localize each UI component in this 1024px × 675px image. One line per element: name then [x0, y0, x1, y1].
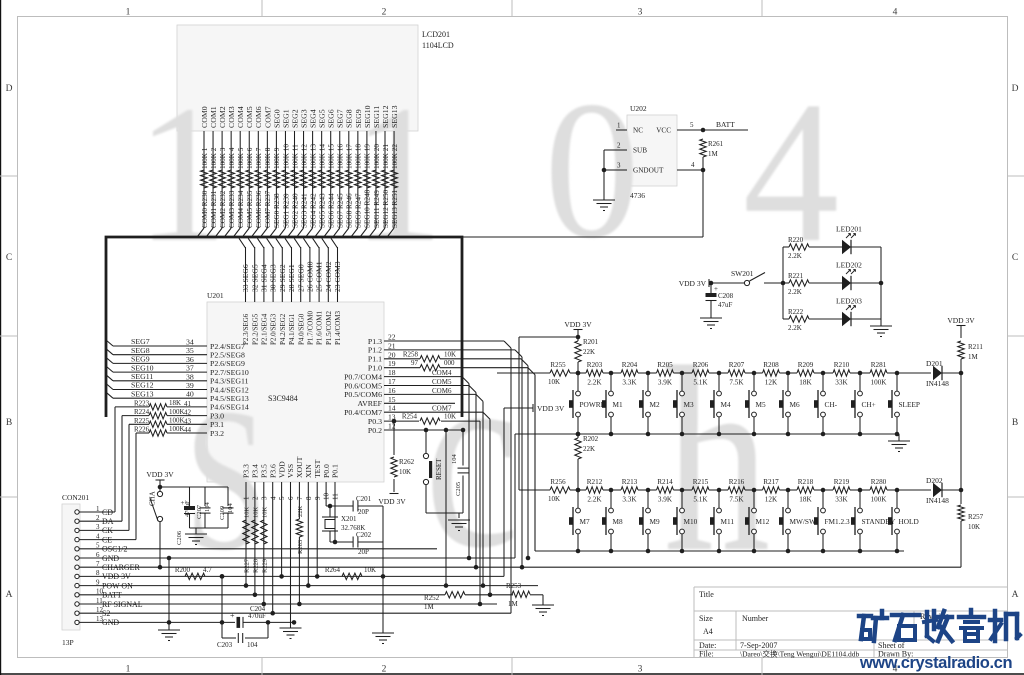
svg-text:U202: U202	[630, 104, 647, 113]
svg-text:TEST: TEST	[313, 459, 322, 478]
svg-text:M12: M12	[756, 517, 770, 526]
svg-text:R217: R217	[763, 478, 779, 486]
svg-text:C207: C207	[196, 504, 203, 519]
svg-text:P2.7/SEG10: P2.7/SEG10	[210, 368, 249, 377]
svg-text:COM4: COM4	[236, 106, 245, 128]
svg-text:SEG10 R248: SEG10 R248	[364, 189, 372, 228]
svg-text:3.3K: 3.3K	[622, 496, 637, 504]
svg-text:18K: 18K	[169, 399, 181, 407]
svg-text:30 SEG3: 30 SEG3	[269, 264, 278, 292]
svg-text:VSS: VSS	[286, 464, 295, 478]
svg-text:P3.0: P3.0	[210, 411, 224, 420]
svg-text:4.7: 4.7	[203, 566, 212, 574]
svg-text:22K: 22K	[297, 506, 304, 518]
svg-text:4736: 4736	[630, 191, 645, 200]
svg-text:SEG9 R247: SEG9 R247	[355, 193, 363, 228]
svg-text:R202: R202	[583, 435, 599, 443]
svg-text:LED203: LED203	[836, 297, 862, 306]
svg-text:R256: R256	[550, 478, 566, 486]
svg-text:C205: C205	[455, 482, 462, 496]
svg-text:SEG9: SEG9	[131, 355, 150, 364]
svg-text:3: 3	[617, 162, 621, 170]
svg-text:100K 14: 100K 14	[318, 144, 326, 169]
svg-text:100K 17: 100K 17	[346, 144, 354, 169]
svg-text:SEG13: SEG13	[390, 105, 399, 128]
svg-text:5: 5	[278, 496, 286, 500]
svg-text:R206: R206	[693, 361, 709, 369]
svg-text:100K 20: 100K 20	[373, 144, 381, 169]
svg-text:2.2K: 2.2K	[788, 324, 802, 332]
svg-text:M1: M1	[613, 400, 623, 409]
svg-text:97: 97	[411, 359, 419, 367]
svg-text:P1.2: P1.2	[368, 346, 382, 355]
svg-text:M2: M2	[650, 400, 660, 409]
svg-text:h: h	[664, 313, 770, 608]
svg-text:COM4: COM4	[432, 369, 452, 377]
svg-text:Title: Title	[699, 590, 714, 599]
svg-text:P4.4/SEG12: P4.4/SEG12	[210, 385, 249, 394]
svg-text:R253: R253	[506, 582, 522, 590]
svg-text:100K 9: 100K 9	[273, 147, 281, 169]
svg-text:SEG2: SEG2	[290, 109, 299, 128]
svg-text:17: 17	[388, 377, 396, 386]
svg-text:GNDOUT: GNDOUT	[633, 167, 664, 175]
svg-text:D202: D202	[926, 476, 943, 485]
svg-text:7.5K: 7.5K	[729, 379, 744, 387]
svg-text:43: 43	[184, 417, 192, 425]
svg-text:P1.1: P1.1	[368, 355, 382, 364]
svg-text:SEG13: SEG13	[131, 389, 154, 398]
svg-text:44: 44	[184, 426, 192, 434]
svg-text:3: 3	[638, 665, 643, 675]
svg-text:COM3 R233: COM3 R233	[228, 190, 236, 228]
svg-text:CH+: CH+	[862, 400, 876, 409]
svg-text:C: C	[6, 253, 12, 263]
svg-text:VDD 3V: VDD 3V	[537, 404, 565, 413]
svg-text:2: 2	[617, 142, 621, 150]
svg-text:P2.2/SEG5: P2.2/SEG5	[251, 313, 259, 345]
svg-text:3.9K: 3.9K	[658, 496, 673, 504]
svg-text:P3.5: P3.5	[260, 464, 269, 478]
svg-text:FM1.2.3: FM1.2.3	[825, 517, 850, 526]
svg-text:29 SEG2: 29 SEG2	[278, 264, 287, 292]
svg-text:31 SEG4: 31 SEG4	[260, 264, 269, 292]
svg-text:P3.6: P3.6	[268, 464, 277, 478]
svg-text:R220: R220	[788, 236, 804, 244]
svg-text:22: 22	[388, 333, 396, 342]
svg-text:M10: M10	[684, 517, 698, 526]
svg-text:33K: 33K	[835, 379, 848, 387]
svg-text:R212: R212	[587, 478, 603, 486]
svg-text:SEG4: SEG4	[309, 109, 318, 128]
svg-text:X201: X201	[341, 515, 357, 523]
svg-text:SEG0: SEG0	[272, 109, 281, 128]
svg-text:P4.5/SEG13: P4.5/SEG13	[210, 394, 249, 403]
svg-text:10K: 10K	[244, 507, 251, 519]
svg-text:SEG11: SEG11	[372, 106, 381, 128]
svg-text:2.2K: 2.2K	[788, 288, 802, 296]
svg-text:R214: R214	[657, 478, 673, 486]
svg-text:M5: M5	[756, 400, 766, 409]
svg-text:1: 1	[126, 8, 131, 18]
svg-text:C209: C209	[219, 506, 226, 520]
svg-text:19: 19	[388, 359, 396, 368]
svg-text:P2.3/SEG6: P2.3/SEG6	[242, 313, 250, 345]
svg-text:104: 104	[247, 641, 258, 649]
svg-text:P1.4/COM3: P1.4/COM3	[334, 310, 342, 345]
svg-text:2: 2	[382, 8, 387, 18]
svg-text:+: +	[230, 611, 235, 620]
svg-text:R211: R211	[968, 343, 983, 351]
svg-text:10K: 10K	[548, 495, 560, 503]
svg-text:P4.1/SEG1: P4.1/SEG1	[288, 313, 296, 345]
svg-text:P1.3: P1.3	[368, 337, 382, 346]
svg-text:470uF: 470uF	[184, 500, 191, 517]
svg-text:SEG8: SEG8	[345, 109, 354, 128]
svg-text:SEG3: SEG3	[299, 109, 308, 128]
svg-text:SEG6 R244: SEG6 R244	[328, 193, 336, 228]
svg-text:P2.6/SEG9: P2.6/SEG9	[210, 359, 245, 368]
svg-text:2.2K: 2.2K	[587, 379, 602, 387]
svg-text:104: 104	[227, 503, 234, 514]
svg-text:SEG2 R240: SEG2 R240	[291, 193, 299, 228]
svg-text:23 COM3: 23 COM3	[333, 261, 342, 292]
svg-text:CON201: CON201	[62, 493, 89, 502]
svg-text:BATT: BATT	[716, 120, 735, 129]
svg-text:P4.0/SEG0: P4.0/SEG0	[297, 313, 305, 345]
svg-text:RESET: RESET	[435, 458, 443, 480]
svg-text:33 SEG6: 33 SEG6	[241, 264, 250, 292]
svg-text:4: 4	[269, 496, 277, 500]
svg-text:P4.3/SEG11: P4.3/SEG11	[210, 377, 249, 386]
svg-text:SEG13 R251: SEG13 R251	[391, 189, 399, 228]
svg-text:COM0 R230: COM0 R230	[201, 190, 209, 228]
svg-text:100K 19: 100K 19	[364, 144, 372, 169]
svg-text:41: 41	[184, 400, 192, 408]
svg-text:Number: Number	[742, 614, 769, 623]
svg-text:15: 15	[388, 395, 396, 404]
svg-text:P1.0: P1.0	[368, 364, 382, 373]
svg-text:470uF: 470uF	[248, 612, 266, 620]
svg-text:12K: 12K	[765, 379, 778, 387]
svg-text:R204: R204	[622, 361, 638, 369]
svg-text:SEG12: SEG12	[131, 381, 154, 390]
svg-text:P4.2/SEG2: P4.2/SEG2	[279, 313, 287, 345]
svg-text:100K 1: 100K 1	[201, 147, 209, 169]
svg-text:SEG11: SEG11	[131, 372, 153, 381]
svg-text:S3C9484: S3C9484	[268, 394, 298, 403]
svg-text:R280: R280	[871, 478, 887, 486]
svg-text:100K 6: 100K 6	[246, 147, 254, 169]
svg-text:c: c	[424, 308, 519, 604]
svg-text:20: 20	[388, 350, 396, 359]
svg-text:R225: R225	[134, 417, 150, 425]
svg-text:C202: C202	[356, 531, 372, 539]
svg-text:2.2K: 2.2K	[788, 252, 802, 260]
svg-text:13P: 13P	[62, 638, 74, 647]
svg-text:3: 3	[260, 496, 268, 500]
svg-text:104: 104	[204, 502, 211, 513]
svg-text:000: 000	[444, 359, 455, 367]
svg-text:AVREF: AVREF	[357, 399, 382, 408]
svg-text:VDD 3V: VDD 3V	[378, 497, 406, 506]
svg-text:R263: R263	[297, 540, 304, 554]
svg-text:5.1K: 5.1K	[693, 379, 708, 387]
svg-text:LED202: LED202	[836, 261, 862, 270]
svg-text:22K: 22K	[583, 445, 595, 453]
svg-text:R221: R221	[788, 272, 804, 280]
svg-text:37: 37	[186, 364, 194, 373]
svg-text:SEG5: SEG5	[318, 109, 327, 128]
svg-text:28 SEG1: 28 SEG1	[287, 264, 296, 292]
svg-text:100K 18: 100K 18	[355, 144, 363, 169]
svg-text:P1.5/COM2: P1.5/COM2	[325, 310, 333, 345]
svg-text:100K: 100K	[169, 425, 185, 433]
svg-text:P3.3: P3.3	[242, 464, 251, 478]
svg-text:SEG1 R239: SEG1 R239	[282, 193, 290, 228]
svg-text:P2.5/SEG8: P2.5/SEG8	[210, 351, 245, 360]
svg-text:100K 3: 100K 3	[219, 147, 227, 169]
svg-text:34: 34	[186, 338, 194, 347]
svg-text:100K 21: 100K 21	[382, 144, 390, 169]
svg-text:M11: M11	[721, 517, 735, 526]
svg-text:COM7 R237: COM7 R237	[264, 190, 272, 228]
svg-text:10K: 10K	[444, 413, 456, 421]
svg-text:2.2K: 2.2K	[587, 496, 602, 504]
svg-text:5.1K: 5.1K	[693, 496, 708, 504]
svg-text:1: 1	[243, 496, 251, 500]
svg-text:COM0: COM0	[200, 106, 209, 128]
svg-text:4: 4	[893, 8, 898, 18]
svg-text:COM5: COM5	[432, 378, 452, 386]
svg-text:100K 13: 100K 13	[309, 144, 317, 169]
svg-text:100K 5: 100K 5	[237, 147, 245, 169]
svg-text:VDD 3V: VDD 3V	[564, 320, 592, 329]
svg-text:POWRE: POWRE	[580, 400, 606, 409]
svg-text:C: C	[1012, 253, 1018, 263]
svg-text:SEG12: SEG12	[381, 105, 390, 128]
svg-text:M8: M8	[613, 517, 623, 526]
svg-text:D: D	[6, 84, 13, 94]
svg-text:IN4148: IN4148	[926, 379, 949, 388]
svg-text:R223: R223	[134, 399, 150, 407]
svg-text:7.5K: 7.5K	[729, 496, 744, 504]
svg-text:R208: R208	[763, 361, 779, 369]
svg-text:10K: 10K	[261, 507, 268, 519]
svg-text:26 COM0: 26 COM0	[306, 261, 315, 292]
svg-text:16: 16	[388, 386, 396, 395]
svg-text:10K: 10K	[444, 350, 456, 358]
svg-text:3.3K: 3.3K	[622, 379, 637, 387]
svg-text:12K: 12K	[765, 496, 778, 504]
svg-text:36: 36	[186, 355, 194, 364]
svg-text:SEG6: SEG6	[327, 109, 336, 128]
svg-text:VDD 3V: VDD 3V	[146, 470, 174, 479]
svg-text:P0.0: P0.0	[322, 464, 331, 478]
svg-text:R281: R281	[871, 361, 887, 369]
svg-text:MW/SW: MW/SW	[790, 517, 816, 526]
svg-text:C208: C208	[718, 292, 734, 300]
svg-text:100K 4: 100K 4	[228, 147, 236, 169]
svg-text:P2.1/SEG4: P2.1/SEG4	[261, 313, 269, 345]
svg-text:COM3: COM3	[227, 106, 236, 128]
svg-text:1104LCD: 1104LCD	[422, 41, 454, 50]
svg-text:1: 1	[126, 665, 131, 675]
svg-text:SW201: SW201	[731, 269, 754, 278]
svg-text:SEG4 R242: SEG4 R242	[309, 193, 317, 228]
svg-text:P0.6/COM5: P0.6/COM5	[344, 381, 382, 390]
svg-text:SEG1: SEG1	[281, 109, 290, 128]
svg-text:SEG10: SEG10	[363, 105, 372, 128]
svg-text:3.9K: 3.9K	[658, 379, 673, 387]
svg-text:6: 6	[287, 496, 295, 500]
svg-text:LED201: LED201	[836, 225, 862, 234]
svg-text:SLEEP: SLEEP	[899, 400, 921, 409]
svg-text:P3.4: P3.4	[251, 464, 260, 478]
svg-text:100K 7: 100K 7	[255, 147, 263, 169]
svg-text:8: 8	[305, 496, 313, 500]
svg-text:COM5 R235: COM5 R235	[246, 190, 254, 228]
svg-text:47uF: 47uF	[718, 301, 733, 309]
svg-text:24 COM2: 24 COM2	[324, 261, 333, 292]
svg-text:R205: R205	[657, 361, 673, 369]
svg-text:SEG8 R246: SEG8 R246	[346, 193, 354, 228]
svg-text:1M: 1M	[708, 150, 719, 158]
svg-text:COM2: COM2	[218, 106, 227, 128]
svg-text:P0.4/COM7: P0.4/COM7	[344, 408, 382, 417]
svg-text:CH-: CH-	[825, 400, 838, 409]
svg-text:42: 42	[184, 409, 192, 417]
svg-text:P0.5/COM6: P0.5/COM6	[344, 390, 382, 399]
svg-text:100K: 100K	[169, 417, 185, 425]
svg-text:R213: R213	[622, 478, 638, 486]
svg-text:C206: C206	[176, 530, 183, 545]
svg-text:A: A	[6, 590, 13, 600]
svg-text:COM6: COM6	[254, 106, 263, 128]
svg-text:M4: M4	[721, 400, 731, 409]
svg-text:SEG7: SEG7	[336, 109, 345, 128]
svg-text:R262: R262	[399, 458, 415, 466]
svg-text:LCD201: LCD201	[422, 30, 450, 39]
svg-text:40: 40	[186, 390, 194, 399]
svg-text:R207: R207	[729, 361, 745, 369]
svg-text:2: 2	[252, 496, 260, 500]
svg-text:VDD: VDD	[277, 461, 286, 478]
svg-text:COM7: COM7	[432, 405, 452, 413]
svg-text:P3.2: P3.2	[210, 429, 224, 438]
svg-text:7: 7	[296, 496, 304, 500]
svg-text:D: D	[1012, 84, 1019, 94]
svg-text:M6: M6	[790, 400, 800, 409]
svg-text:R224: R224	[134, 408, 150, 416]
svg-text:1: 1	[137, 64, 228, 283]
svg-text:32 SEG5: 32 SEG5	[250, 264, 259, 292]
svg-text:SEG9: SEG9	[354, 109, 363, 128]
svg-text:VDD 3V: VDD 3V	[947, 316, 975, 325]
svg-text:R264: R264	[325, 566, 341, 574]
svg-text:NC: NC	[633, 127, 643, 135]
svg-text:P0.3: P0.3	[368, 417, 382, 426]
svg-text:P4.6/SEG14: P4.6/SEG14	[210, 403, 249, 412]
svg-text:22K: 22K	[583, 348, 595, 356]
svg-text:100K 22: 100K 22	[391, 144, 399, 169]
svg-text:18: 18	[388, 368, 396, 377]
svg-text:C203: C203	[217, 641, 233, 649]
svg-text:COM5: COM5	[245, 106, 254, 128]
svg-text:20P: 20P	[358, 508, 369, 516]
svg-text:COM6: COM6	[432, 387, 452, 395]
svg-text:104: 104	[451, 454, 458, 465]
svg-text:A: A	[1012, 590, 1019, 600]
svg-text:COM4 R234: COM4 R234	[237, 190, 245, 228]
svg-text:C201: C201	[356, 495, 372, 503]
svg-text:SEG5 R243: SEG5 R243	[318, 193, 326, 228]
svg-text:IN4148: IN4148	[926, 496, 949, 505]
svg-text:100K 12: 100K 12	[300, 144, 308, 169]
svg-text:100K 8: 100K 8	[264, 147, 272, 169]
svg-text:R222: R222	[788, 308, 804, 316]
svg-text:VCC: VCC	[656, 127, 671, 135]
svg-text:P1.7/COM0: P1.7/COM0	[307, 310, 315, 345]
svg-text:SEG7: SEG7	[131, 337, 150, 346]
svg-text:SEG3 R241: SEG3 R241	[300, 193, 308, 228]
svg-text:R200: R200	[175, 566, 191, 574]
svg-text:R201: R201	[583, 338, 599, 346]
svg-text:R255: R255	[550, 361, 566, 369]
svg-text:Size: Size	[699, 614, 713, 623]
svg-text:B: B	[6, 418, 12, 428]
svg-text:18K: 18K	[799, 379, 812, 387]
svg-text:VDD 3V: VDD 3V	[679, 279, 707, 288]
svg-text:5: 5	[690, 121, 694, 129]
svg-text:B: B	[1012, 418, 1018, 428]
svg-text:39: 39	[186, 381, 194, 390]
svg-text:R216: R216	[729, 478, 745, 486]
svg-text:100K: 100K	[169, 408, 185, 416]
svg-text:M7: M7	[580, 517, 590, 526]
svg-text:XOUT: XOUT	[295, 456, 304, 478]
svg-text:9: 9	[314, 496, 322, 500]
svg-text:10: 10	[323, 493, 331, 501]
svg-text:P0.2: P0.2	[368, 426, 382, 435]
svg-text:\Dareo\交换\Teng Wengui\DE1104.d: \Dareo\交换\Teng Wengui\DE1104.ddb	[740, 649, 860, 659]
svg-text:100K 11: 100K 11	[291, 144, 299, 169]
svg-text:SEG12 R250: SEG12 R250	[382, 189, 390, 228]
svg-text:R218: R218	[798, 478, 814, 486]
svg-text:SEG11 R249: SEG11 R249	[373, 190, 381, 228]
svg-text:25 COM1: 25 COM1	[315, 261, 324, 292]
svg-text:3: 3	[638, 8, 643, 18]
svg-text:P2.0/SEG3: P2.0/SEG3	[270, 313, 278, 345]
svg-text:1: 1	[617, 122, 621, 130]
svg-text:4: 4	[691, 161, 695, 169]
svg-text:COM6 R236: COM6 R236	[255, 190, 263, 228]
svg-text:10K: 10K	[548, 378, 560, 386]
svg-text:38: 38	[186, 372, 194, 381]
svg-text:P3.1: P3.1	[210, 420, 224, 429]
svg-text:10K: 10K	[253, 507, 260, 519]
svg-text:A4: A4	[703, 627, 713, 636]
svg-text:33K: 33K	[835, 496, 848, 504]
svg-text:14: 14	[388, 404, 396, 413]
svg-text:SEG7 R245: SEG7 R245	[337, 193, 345, 228]
svg-text:35: 35	[186, 346, 194, 355]
svg-text:SEG10: SEG10	[131, 363, 154, 372]
svg-text:11: 11	[332, 493, 340, 500]
svg-text:100K 2: 100K 2	[210, 147, 218, 169]
svg-text:R210: R210	[834, 361, 850, 369]
svg-text:P1.6/COM1: P1.6/COM1	[316, 310, 324, 345]
